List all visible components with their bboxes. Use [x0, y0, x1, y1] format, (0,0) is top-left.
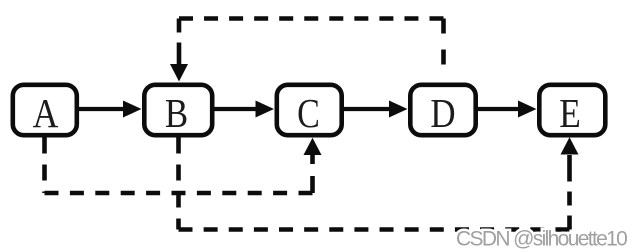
wire dashed from B bottom downward [176, 138, 181, 230]
svg-text:C: C [297, 91, 320, 137]
wire dashed horizontal from B corner to E corner [179, 227, 570, 232]
svg-text:D: D [430, 91, 455, 136]
svg-text:B: B [165, 91, 188, 136]
svg-text:A: A [33, 92, 59, 137]
wire dashed from A bottom downward [42, 138, 47, 194]
wire dashed vertical from top corner down to D top [441, 19, 446, 81]
wire solid arrow C to D [344, 101, 408, 118]
arrowhead into C bottom [304, 138, 322, 155]
wire solid stem into E arrowhead [567, 155, 572, 168]
wire dashed vertical up toward E [567, 168, 572, 230]
node C box [277, 85, 342, 137]
wire solid arrow A to B [79, 101, 142, 118]
wire dashed horizontal from A corner to C corner [45, 191, 313, 196]
svg-text:CSDN @silhouette10: CSDN @silhouette10 [456, 228, 627, 251]
wire dashed vertical up toward C [310, 155, 315, 193]
wire solid arrow B to C [215, 101, 275, 118]
node B box [144, 85, 212, 137]
node A box [13, 85, 77, 137]
node E box [539, 85, 605, 137]
wire dashed feedback top horizontal from B corner to D corner [179, 16, 444, 21]
svg-text:E: E [559, 91, 581, 136]
wire solid stem into B arrowhead [177, 43, 182, 66]
node D box [410, 85, 475, 137]
wire solid arrow D to E [478, 101, 537, 118]
wire dashed vertical from top corner down toward B [177, 19, 182, 43]
arrowhead into B top [170, 64, 188, 82]
arrowhead into E bottom [561, 137, 579, 154]
